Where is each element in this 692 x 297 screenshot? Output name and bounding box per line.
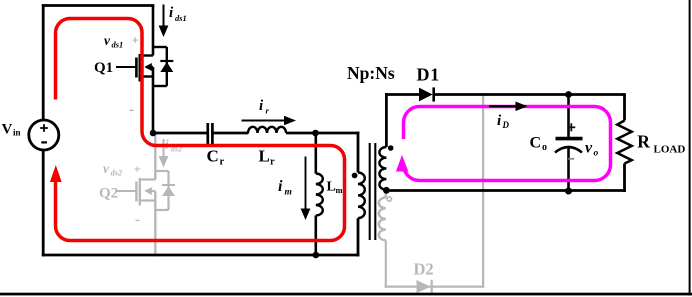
node after Lr (312, 130, 319, 137)
gray wire D2 rail (385, 286, 485, 288)
diode D1 (419, 87, 434, 101)
transistor Q1 (116, 47, 167, 133)
wire bottom rail (42, 254, 360, 257)
polarity dot primary (352, 173, 358, 179)
capacitor Co (555, 139, 583, 153)
svg-text:v: v (585, 140, 593, 157)
label i_ds2 (gray, under red line) (165, 137, 182, 154)
svg-text:C: C (207, 147, 219, 166)
voltage source Vin (29, 120, 59, 150)
svg-text:m: m (285, 188, 292, 198)
svg-text:ds2: ds2 (111, 168, 124, 178)
label v_ds2 (gray) (103, 161, 123, 178)
label v_ds1 (104, 33, 123, 50)
wire secondary top rail left of D1 (385, 93, 420, 96)
svg-text:Q2: Q2 (99, 186, 118, 202)
transformer secondary winding Ns1 (379, 147, 386, 190)
svg-text:r: r (220, 157, 225, 168)
node winding bottom (383, 187, 390, 194)
label i_ds1 (169, 5, 187, 23)
svg-text:ds1: ds1 (175, 13, 187, 23)
svg-text:-: - (135, 212, 140, 228)
transformer core (370, 143, 376, 240)
label vo (585, 140, 599, 159)
wire secondary bottom rail (385, 189, 626, 192)
body diode of Q1 (160, 61, 173, 72)
label i_D (497, 113, 510, 130)
transformer secondary winding Ns2 (gray) (379, 198, 386, 241)
wire below R_LOAD (623, 164, 626, 192)
magenta current loop (secondary) (404, 107, 611, 181)
inductor Lr (248, 127, 286, 133)
wire secondary top rail right of D1 (433, 93, 626, 96)
wire left top (42, 4, 45, 121)
inductor Lm (316, 174, 323, 216)
polarity - of vo (gray) (568, 158, 574, 160)
wire Lm branch bottom (314, 216, 317, 256)
wire secondary left top (385, 93, 388, 147)
svg-text:L: L (327, 180, 336, 195)
label Cr (207, 147, 225, 168)
node A (Q1 source / Cr / Q2 drain) (150, 130, 157, 137)
node Lm bottom (313, 252, 320, 259)
capacitor Cr (208, 123, 213, 145)
wire Co branch top (567, 95, 570, 138)
gray secondary winding Ns2 lead (385, 192, 387, 198)
wire left bottom (42, 149, 45, 256)
current arrow i_m (301, 157, 311, 221)
transformer primary winding (358, 173, 365, 219)
polarity + of vo (567, 123, 575, 131)
wire Lm branch top (314, 133, 317, 174)
resistor R_LOAD (617, 121, 631, 164)
svg-text:LOAD: LOAD (654, 144, 686, 156)
label R_LOAD (637, 132, 685, 156)
red loop arrowhead (50, 165, 62, 182)
svg-text:C: C (530, 135, 542, 152)
wire primary winding to bottom rail (357, 218, 360, 256)
svg-text:D: D (502, 120, 510, 130)
current arrow i_D (489, 102, 528, 112)
label Co (530, 135, 548, 154)
svg-text:m: m (336, 185, 343, 195)
gray wire D2 up to output (482, 95, 484, 288)
wire primary right side down (357, 132, 360, 173)
label Vin (2, 122, 21, 138)
wire Cr to Lr (213, 132, 249, 135)
diode D2 (gray) (417, 280, 432, 294)
wire Co branch bottom (567, 147, 570, 191)
wire Q1 drain vertical (152, 6, 155, 56)
wire secondary right side (623, 95, 626, 121)
svg-text:in: in (13, 128, 21, 138)
svg-text:+: + (134, 162, 141, 177)
svg-text:o: o (594, 149, 599, 159)
svg-text:o: o (542, 142, 547, 153)
svg-text:L: L (259, 147, 270, 166)
svg-text:D1: D1 (417, 64, 441, 84)
svg-text:r: r (270, 157, 275, 168)
current arrow i_ds2 (gray) (159, 139, 169, 168)
label i_r (259, 98, 270, 116)
label Lr (259, 147, 276, 168)
polarity dot Ns2 (gray) (387, 197, 391, 201)
label Lm (327, 180, 343, 196)
svg-text:ds1: ds1 (112, 40, 124, 50)
gray circuit: Q2 branch vertical (154, 134, 156, 256)
label i_m (278, 178, 292, 198)
magenta loop arrowhead (396, 155, 409, 172)
svg-text:-: - (129, 102, 134, 118)
transistor Q2 (gray) (116, 171, 169, 210)
node Co top (565, 91, 572, 98)
svg-text:v: v (104, 33, 111, 48)
node Co bottom (565, 188, 572, 195)
polarity dot Ns1 (388, 145, 394, 151)
gray wire Ns2 down (385, 240, 387, 287)
wire Lr to right (286, 132, 359, 135)
wire top rail (42, 4, 155, 7)
wire mid rail (node A to transformer) (153, 132, 207, 135)
svg-text:Q1: Q1 (94, 60, 113, 76)
svg-text:Np:Ns: Np:Ns (347, 63, 395, 83)
svg-text:R: R (637, 132, 650, 152)
svg-text:v: v (103, 161, 110, 176)
body diode of Q2 (gray) (162, 185, 175, 196)
svg-text:+: + (132, 33, 139, 48)
svg-text:i: i (278, 178, 283, 195)
svg-text:D2: D2 (414, 260, 434, 279)
current arrow i_ds1 (159, 5, 169, 38)
current arrow i_r (242, 116, 297, 126)
wire winding Ns1 to bottom rail (385, 189, 388, 192)
red current loop (primary) (56, 19, 345, 241)
svg-text:V: V (2, 122, 13, 138)
